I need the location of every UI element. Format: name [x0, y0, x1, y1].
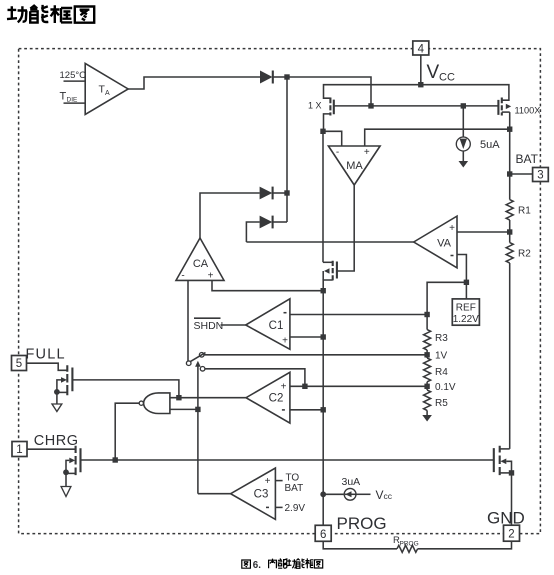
svg-text:MA: MA	[346, 160, 363, 172]
svg-text:V: V	[376, 488, 384, 502]
svg-text:R3: R3	[435, 333, 448, 344]
svg-text:+: +	[208, 271, 214, 282]
svg-text:5uA: 5uA	[480, 139, 500, 151]
svg-text:cc: cc	[384, 491, 393, 501]
svg-text:CHRG: CHRG	[34, 433, 79, 449]
svg-text:4: 4	[418, 44, 425, 56]
svg-text:+: +	[265, 476, 271, 487]
svg-text:5: 5	[16, 358, 22, 370]
svg-text:-: -	[181, 271, 184, 282]
svg-text:2: 2	[508, 529, 514, 541]
svg-text:PROG: PROG	[337, 514, 387, 533]
svg-text:CA: CA	[193, 258, 209, 270]
svg-text:125°C: 125°C	[60, 70, 87, 81]
svg-text:PROG: PROG	[400, 541, 419, 548]
svg-text:T: T	[60, 91, 67, 103]
svg-text:3uA: 3uA	[342, 476, 361, 488]
svg-text:+: +	[282, 336, 288, 347]
svg-text:VA: VA	[437, 238, 452, 250]
svg-text:C1: C1	[269, 320, 284, 332]
svg-text:BAT: BAT	[516, 152, 539, 166]
svg-text:1100X: 1100X	[515, 106, 541, 116]
svg-text:GND: GND	[487, 509, 525, 528]
svg-text:0.1V: 0.1V	[435, 382, 456, 393]
svg-text:TO: TO	[286, 473, 300, 484]
svg-text:C2: C2	[269, 393, 284, 405]
svg-text:-: -	[336, 147, 339, 158]
svg-text:R2: R2	[518, 249, 531, 260]
svg-text:+: +	[281, 382, 287, 393]
svg-text:2.9V: 2.9V	[285, 503, 306, 514]
svg-text:1.22V: 1.22V	[453, 314, 479, 325]
svg-text:CC: CC	[439, 72, 455, 84]
svg-text:BAT: BAT	[285, 483, 304, 494]
svg-text:R4: R4	[435, 367, 448, 378]
svg-text:6.: 6.	[253, 560, 261, 571]
svg-text:1: 1	[16, 444, 22, 456]
svg-text:R1: R1	[518, 206, 531, 217]
svg-text:R5: R5	[435, 398, 448, 409]
svg-text:C3: C3	[254, 489, 269, 501]
svg-text:V: V	[427, 62, 440, 83]
svg-text:+: +	[364, 147, 370, 158]
svg-text:FULL: FULL	[26, 347, 66, 363]
svg-text:6: 6	[320, 529, 326, 541]
svg-text:1V: 1V	[435, 351, 448, 362]
svg-text:DIE: DIE	[67, 97, 79, 104]
svg-text:3: 3	[537, 170, 543, 182]
svg-text:A: A	[105, 90, 110, 97]
svg-text:+: +	[449, 223, 455, 234]
svg-text:REF: REF	[456, 303, 476, 314]
svg-text:SHDN: SHDN	[194, 320, 224, 332]
svg-text:1 X: 1 X	[308, 101, 322, 111]
